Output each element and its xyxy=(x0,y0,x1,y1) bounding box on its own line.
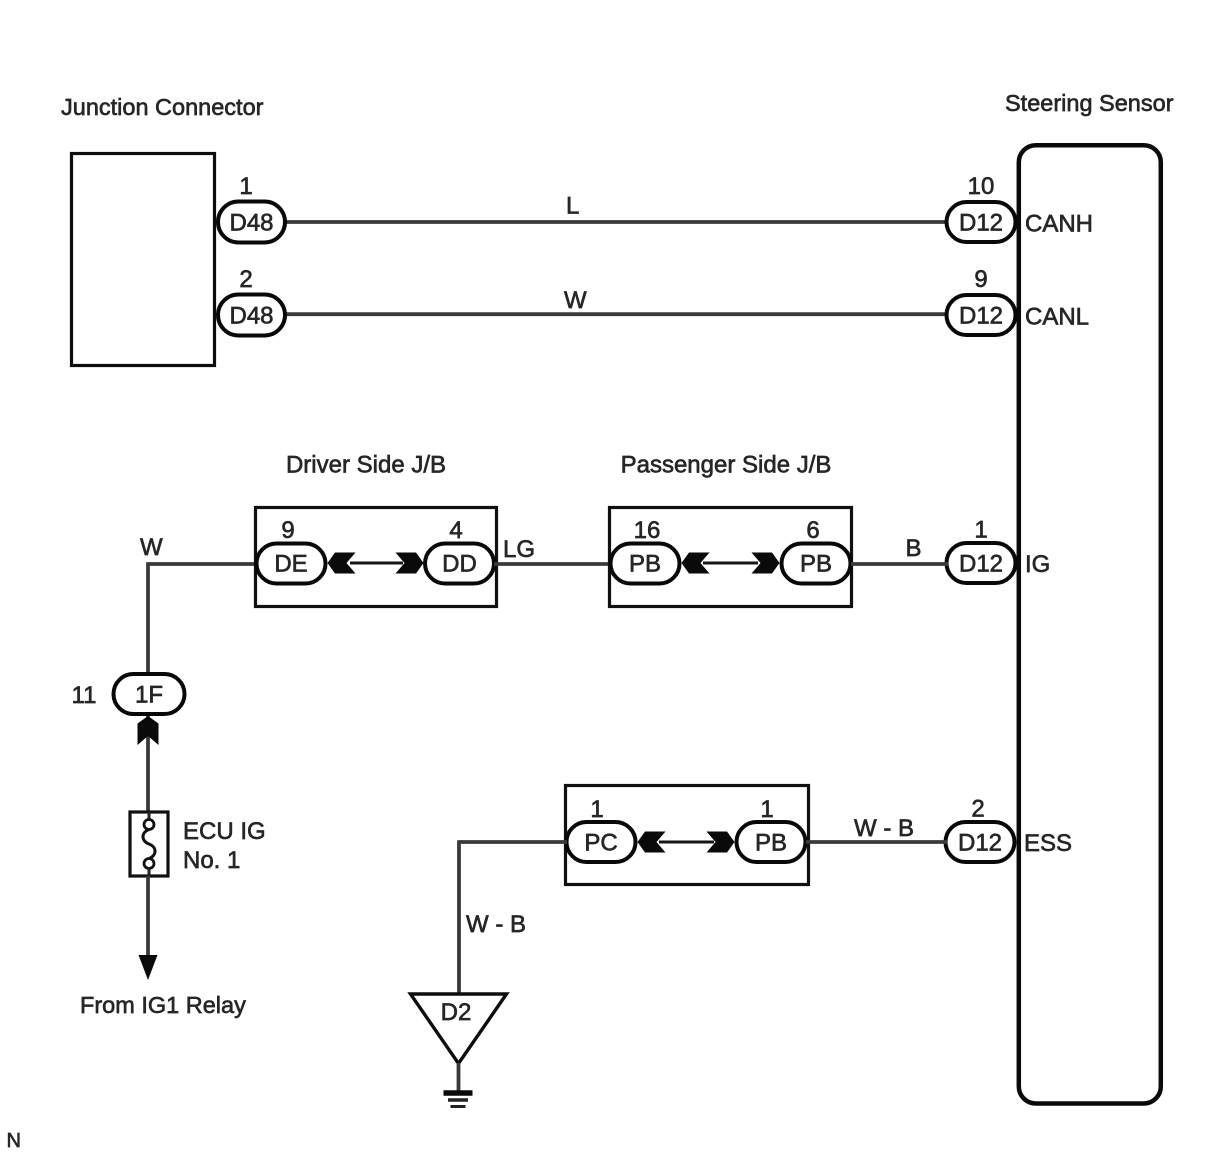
svg-text:1F: 1F xyxy=(135,682,163,709)
svg-text:1: 1 xyxy=(590,796,603,823)
svg-text:PB: PB xyxy=(629,551,661,578)
svg-text:2: 2 xyxy=(971,796,984,823)
svg-text:N: N xyxy=(7,1130,21,1152)
svg-text:4: 4 xyxy=(449,517,462,544)
svg-text:16: 16 xyxy=(634,517,661,544)
svg-text:1: 1 xyxy=(974,517,987,544)
svg-text:1: 1 xyxy=(760,796,773,823)
svg-text:2: 2 xyxy=(239,266,252,293)
svg-text:W: W xyxy=(140,534,163,561)
svg-text:9: 9 xyxy=(974,266,987,293)
svg-text:11: 11 xyxy=(72,682,97,709)
svg-text:Driver Side J/B: Driver Side J/B xyxy=(286,452,446,479)
svg-text:6: 6 xyxy=(806,517,819,544)
svg-text:D48: D48 xyxy=(229,210,273,237)
svg-text:CANH: CANH xyxy=(1025,211,1093,238)
svg-text:Steering Sensor: Steering Sensor xyxy=(1005,90,1174,116)
svg-text:D12: D12 xyxy=(959,303,1003,330)
svg-text:From IG1 Relay: From IG1 Relay xyxy=(80,992,246,1018)
svg-text:D48: D48 xyxy=(229,303,273,330)
svg-text:L: L xyxy=(566,193,579,220)
svg-text:Junction Connector: Junction Connector xyxy=(61,94,264,120)
svg-text:PB: PB xyxy=(800,551,832,578)
svg-text:W - B: W - B xyxy=(466,911,526,938)
svg-text:D2: D2 xyxy=(441,999,472,1026)
svg-text:DE: DE xyxy=(274,551,307,578)
svg-text:LG: LG xyxy=(503,536,535,563)
svg-text:10: 10 xyxy=(968,173,995,200)
svg-text:No. 1: No. 1 xyxy=(183,847,240,874)
svg-text:IG: IG xyxy=(1025,551,1050,578)
svg-text:PB: PB xyxy=(755,830,787,857)
svg-text:W: W xyxy=(564,287,587,314)
svg-text:ECU IG: ECU IG xyxy=(183,818,266,845)
svg-text:PC: PC xyxy=(584,830,617,857)
svg-text:D12: D12 xyxy=(959,551,1003,578)
svg-text:W - B: W - B xyxy=(854,815,914,842)
svg-text:DD: DD xyxy=(442,551,477,578)
svg-text:B: B xyxy=(906,535,922,562)
svg-text:Passenger Side J/B: Passenger Side J/B xyxy=(621,452,832,479)
svg-text:9: 9 xyxy=(281,517,294,544)
svg-text:D12: D12 xyxy=(958,830,1002,857)
svg-text:CANL: CANL xyxy=(1025,304,1089,331)
svg-text:D12: D12 xyxy=(959,210,1003,237)
svg-text:ESS: ESS xyxy=(1024,830,1072,857)
svg-text:1: 1 xyxy=(239,173,252,200)
